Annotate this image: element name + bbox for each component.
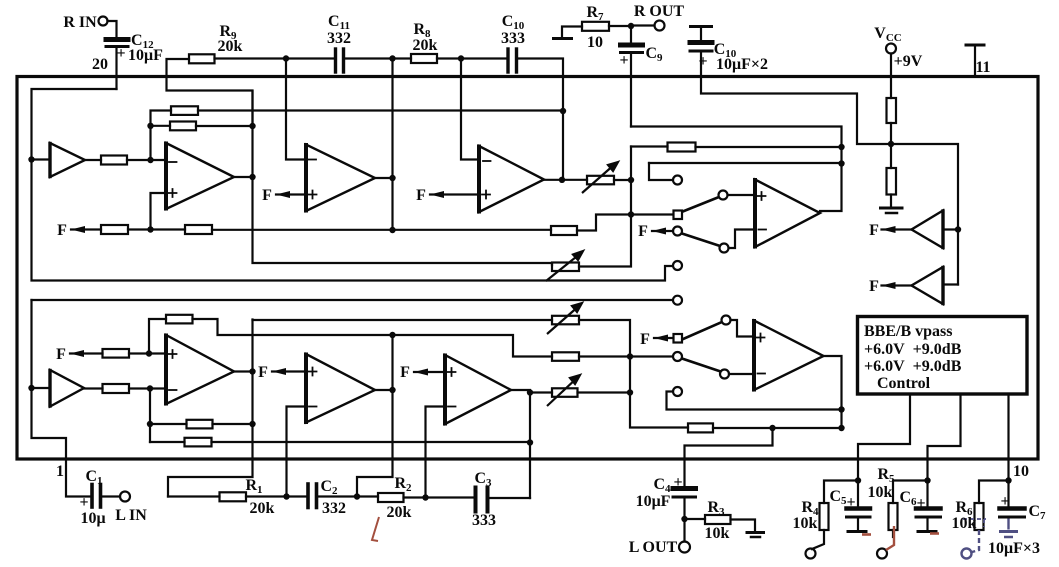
svg-text:10μF: 10μF: [636, 493, 671, 510]
svg-text:332: 332: [327, 30, 351, 47]
svg-text:F: F: [869, 222, 879, 239]
svg-text:F: F: [57, 222, 67, 239]
svg-text:10μF×3: 10μF×3: [988, 540, 1040, 557]
svg-text:20k: 20k: [250, 500, 275, 517]
svg-text:+: +: [916, 495, 925, 512]
svg-text:11: 11: [975, 59, 990, 76]
svg-text:F: F: [638, 223, 648, 240]
svg-text:+: +: [79, 494, 88, 511]
svg-text:10k: 10k: [952, 515, 977, 532]
svg-text:L IN: L IN: [115, 507, 147, 524]
svg-text:F: F: [400, 364, 410, 381]
svg-text:+6.0V +9.0dB: +6.0V +9.0dB: [864, 358, 962, 375]
svg-text:+: +: [619, 52, 628, 69]
svg-text:F: F: [869, 278, 879, 295]
svg-text:10: 10: [1013, 463, 1029, 480]
svg-text:10k: 10k: [705, 525, 730, 542]
svg-text:L OUT: L OUT: [629, 539, 678, 556]
svg-text:BBE/B vpass: BBE/B vpass: [864, 323, 952, 340]
svg-text:+: +: [116, 45, 125, 62]
svg-text:+: +: [698, 53, 707, 70]
svg-text:R OUT: R OUT: [634, 3, 685, 20]
svg-text:F: F: [416, 187, 426, 204]
svg-text:1: 1: [56, 463, 64, 480]
svg-text:F: F: [262, 187, 272, 204]
svg-text:20k: 20k: [387, 504, 412, 521]
svg-text:F: F: [640, 331, 650, 348]
svg-text:+: +: [846, 494, 855, 511]
svg-text:Control: Control: [877, 375, 931, 392]
svg-text:10μF×2: 10μF×2: [716, 56, 768, 73]
svg-text:+: +: [1000, 493, 1009, 510]
svg-text:10μF: 10μF: [128, 47, 163, 64]
svg-text:10k: 10k: [793, 515, 818, 532]
svg-text:10: 10: [587, 34, 603, 51]
svg-text:+: +: [673, 474, 682, 491]
svg-text:F: F: [258, 364, 268, 381]
svg-text:20k: 20k: [413, 37, 438, 54]
svg-text:20: 20: [92, 56, 108, 73]
svg-text:+9V: +9V: [894, 53, 923, 70]
svg-text:333: 333: [472, 512, 496, 529]
svg-text:R IN: R IN: [63, 14, 97, 31]
svg-text:F: F: [56, 346, 66, 363]
svg-text:10k: 10k: [868, 484, 893, 501]
svg-text:+6.0V +9.0dB: +6.0V +9.0dB: [864, 341, 962, 358]
svg-text:20k: 20k: [218, 38, 243, 55]
svg-text:333: 333: [501, 30, 525, 47]
svg-text:10μ: 10μ: [80, 510, 105, 527]
svg-text:332: 332: [322, 500, 346, 517]
